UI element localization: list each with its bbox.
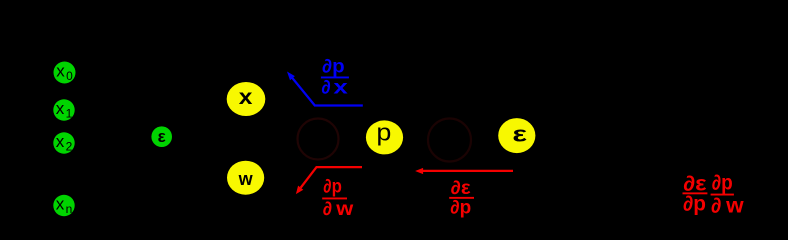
svg-text:x: x bbox=[333, 77, 348, 98]
svg-text:0: 0 bbox=[66, 69, 73, 83]
svg-text:∂: ∂ bbox=[711, 195, 721, 218]
svg-text:w: w bbox=[725, 195, 744, 218]
svg-text:∂p: ∂p bbox=[683, 193, 706, 216]
svg-text:x: x bbox=[239, 85, 253, 109]
svg-text:ε: ε bbox=[512, 122, 527, 147]
svg-text:p: p bbox=[376, 120, 391, 146]
svg-text:ε: ε bbox=[158, 127, 166, 146]
svg-text:2: 2 bbox=[66, 140, 73, 154]
svg-text:∂ε: ∂ε bbox=[451, 178, 471, 199]
svg-text:x: x bbox=[56, 132, 65, 151]
svg-text:∂: ∂ bbox=[321, 77, 330, 98]
svg-text:w: w bbox=[238, 169, 254, 189]
svg-text:w: w bbox=[335, 199, 353, 220]
svg-text:n: n bbox=[66, 202, 73, 216]
svg-text:x: x bbox=[56, 99, 65, 118]
svg-text:∂p: ∂p bbox=[322, 57, 345, 78]
svg-text:x: x bbox=[56, 62, 65, 81]
svg-text:x: x bbox=[56, 195, 65, 214]
svg-text:∂p: ∂p bbox=[323, 177, 342, 198]
svg-text:∂p: ∂p bbox=[712, 172, 733, 195]
svg-text:∂: ∂ bbox=[323, 199, 332, 220]
svg-text:1: 1 bbox=[66, 107, 73, 121]
svg-text:∂p: ∂p bbox=[450, 197, 471, 218]
